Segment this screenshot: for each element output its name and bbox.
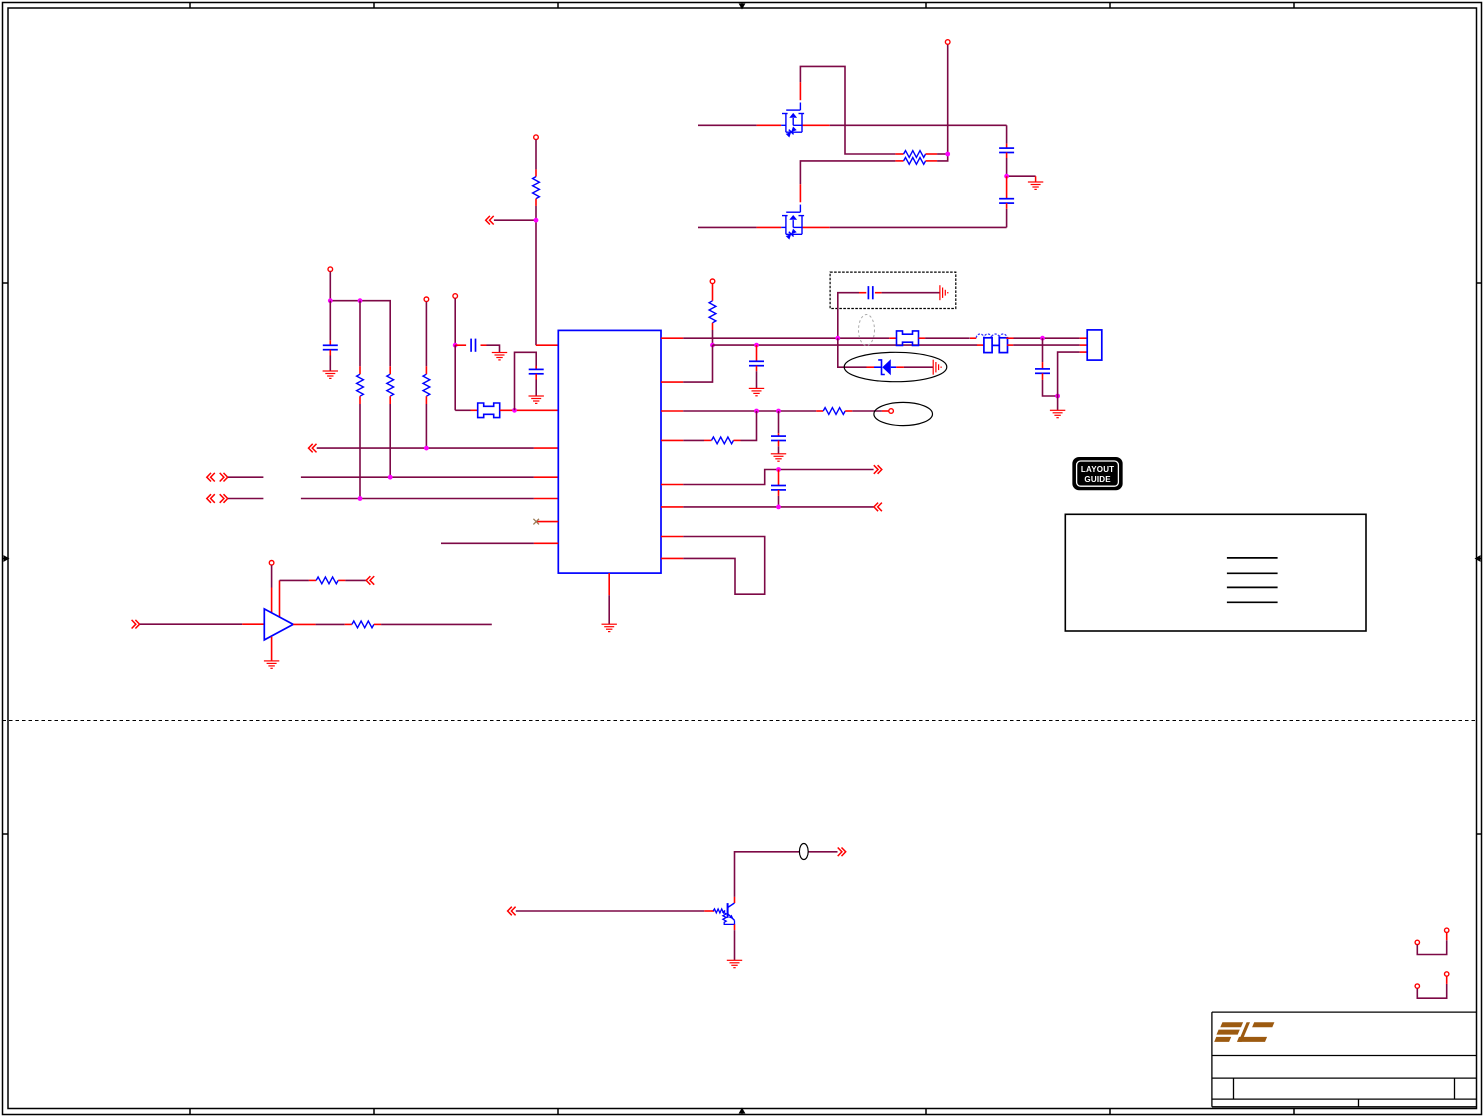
pin R4 bottom: [389, 396, 391, 404]
wire VCC1 bus right: [330, 301, 390, 367]
offpage conn outn: [874, 503, 882, 512]
junction net3: [534, 218, 539, 223]
wire line1 to conn: [1014, 337, 1080, 339]
ground C3: [323, 371, 338, 378]
FIC logo: [1214, 1022, 1274, 1042]
junction net2: [358, 496, 363, 501]
pin C4 left: [455, 344, 466, 346]
pin IC right u1: [661, 536, 683, 538]
resistor R2: [904, 158, 926, 165]
notes box: [1065, 514, 1366, 631]
pin D1 left: [867, 366, 875, 368]
pin J1 1: [1080, 337, 1088, 339]
pin R7 bottom: [712, 323, 714, 330]
junction net0: [424, 446, 429, 451]
pin C3 bottom: [329, 350, 331, 356]
ground conn: [1050, 410, 1065, 417]
pin R2 left: [895, 160, 903, 162]
resistor R7: [709, 301, 716, 323]
pin C7 right: [875, 292, 882, 294]
wire M1 source to C1: [830, 124, 1007, 126]
pin C3 top: [329, 340, 331, 345]
wire C8 top: [1042, 338, 1044, 362]
wire C4 to gnd: [487, 345, 500, 352]
pin D1 right: [896, 366, 904, 368]
wire C5 to gnd: [535, 380, 537, 397]
wire R5 down: [425, 404, 427, 448]
junction line2 R7: [710, 343, 715, 348]
pin R11 right: [374, 623, 381, 625]
wire C1 to junction: [1006, 158, 1008, 176]
wire C7 to chassis: [882, 292, 940, 294]
wire net2 stub: [228, 498, 263, 500]
capacitor C6: [749, 361, 764, 365]
wire VCC4 down: [454, 298, 456, 345]
resistor R11: [352, 621, 374, 628]
wire R3 top: [359, 301, 361, 367]
center arrow bottom: [741, 1111, 743, 1115]
junction VCC4: [453, 343, 458, 348]
choke L1: [976, 334, 1007, 353]
wire C2 bottom: [1006, 209, 1008, 228]
pin IC right outp: [661, 484, 683, 486]
pin M2 drain: [757, 226, 782, 228]
pin IC right line1: [661, 337, 683, 339]
junction VCC1 a: [328, 298, 333, 303]
node VCC3 circle: [534, 135, 539, 140]
pin R7 top: [712, 284, 714, 301]
offpage conn net3: [486, 216, 494, 225]
offpage conn net2 pair: [207, 494, 215, 503]
offpage conn buf in: [132, 620, 140, 629]
wire junction to gnd: [1007, 175, 1036, 177]
pin IC right 2: [661, 381, 683, 383]
wire base: [516, 910, 705, 912]
pin M2 source: [802, 226, 830, 228]
wire IC gnd: [608, 595, 610, 624]
pin C1 top: [1006, 144, 1008, 149]
wire emitter down: [734, 930, 736, 960]
pin IC bottom gnd: [608, 573, 610, 595]
wire buf out: [316, 623, 345, 625]
pin R9 right: [734, 439, 741, 441]
wire M1 drain left: [698, 124, 757, 126]
offpage conn base: [508, 907, 516, 916]
wire bypass branch: [515, 352, 537, 410]
pin IC left net1: [534, 476, 558, 478]
resistor R6: [533, 177, 540, 199]
pin Q3 emitter: [734, 924, 736, 930]
pin M1 drain: [757, 124, 782, 126]
chassis ground C7: [940, 285, 948, 300]
pin buf in: [242, 623, 264, 625]
wire collector up: [735, 852, 838, 897]
wire R10 to offpage: [345, 579, 366, 581]
pin F1 right: [500, 409, 559, 411]
notes line 4: [1227, 601, 1278, 603]
pin buf gnd: [271, 637, 273, 661]
resistor R10: [316, 577, 338, 584]
resistor R4: [387, 374, 394, 396]
offpage conn fb: [366, 576, 374, 585]
pin C2 bottom: [1006, 203, 1008, 209]
wire R4 down to net1: [389, 404, 391, 477]
pin IC left net0: [534, 447, 558, 449]
capacitor C1: [999, 148, 1014, 152]
wire R2 up to node: [937, 154, 948, 161]
wire supply vertical: [947, 44, 949, 154]
RIGHT-FILTER: [661, 272, 1102, 418]
ground stem top: [1035, 176, 1037, 182]
pin node stub: [882, 410, 889, 412]
center arrow right: [1479, 558, 1482, 560]
capacitor C10: [771, 486, 786, 490]
offpage conn net1 pair: [207, 473, 215, 482]
wire R6 top: [535, 140, 537, 170]
pin R3 bottom: [359, 396, 361, 404]
wire buf in: [140, 623, 242, 625]
pin R1 left: [895, 153, 903, 155]
MID-LEFT: [207, 135, 559, 503]
pin R3 top: [359, 366, 361, 374]
pin L1 left: [970, 337, 976, 339]
wire line2: [713, 344, 978, 346]
junction adj b: [776, 409, 781, 414]
pin C5 bottom: [535, 374, 537, 380]
offpage conn net0: [309, 444, 317, 453]
pin R1 right: [926, 153, 938, 155]
wire pin2 up: [683, 345, 712, 382]
wire R5 top: [425, 302, 427, 367]
offpage conn outp: [874, 465, 882, 474]
protection ellipse: [844, 352, 947, 381]
wire M2 drain left: [698, 226, 757, 228]
wire R3 down to net2: [359, 404, 361, 499]
ic U1 body: [558, 330, 661, 573]
pin R2 right: [926, 160, 938, 162]
wire R9 up to adj: [741, 411, 757, 440]
pin F2 right: [919, 337, 926, 339]
junction line1 cap: [1040, 336, 1045, 341]
pin J1 2: [1080, 344, 1088, 346]
resistor R8: [823, 408, 845, 415]
pin C6 bottom: [756, 366, 758, 372]
wire outn: [683, 506, 873, 508]
current probe ellipse: [799, 844, 808, 860]
resistor R5: [423, 374, 430, 396]
wire C3 top: [329, 301, 331, 341]
capacitor C8: [1035, 369, 1050, 373]
pin buf out: [293, 623, 315, 625]
wire U loop: [683, 537, 765, 595]
pin F1 left: [471, 409, 478, 411]
wire R7 down: [712, 330, 714, 345]
pin R4 top: [389, 366, 391, 374]
junction outn: [776, 505, 781, 510]
pin C1 bottom: [1006, 153, 1008, 159]
ground C9: [771, 454, 786, 461]
wire M1 gate jog: [800, 66, 895, 154]
center arrow top: [741, 3, 743, 7]
wire fb up: [683, 439, 704, 441]
node test circle: [889, 409, 894, 414]
wire buf vcc: [271, 565, 273, 587]
no-connect X: [533, 519, 539, 525]
pin IC right adj: [661, 410, 683, 412]
dashed option box: [830, 272, 956, 308]
wire R11 out: [381, 623, 492, 625]
MID-OUT: [661, 402, 933, 594]
pin C9 bottom: [778, 441, 780, 447]
pin IC right outn: [661, 506, 683, 508]
pin R8 right: [845, 410, 852, 412]
pin R10 right: [338, 579, 345, 581]
junction net1: [388, 475, 393, 480]
wire option cap left: [838, 293, 859, 339]
junction F1 out: [512, 408, 517, 413]
pin C10 top: [778, 470, 780, 486]
junction gnd conn: [1055, 394, 1060, 399]
wire C1 top: [1006, 125, 1008, 143]
pin C8 bottom: [1042, 373, 1044, 380]
wire VCC4 down2: [454, 345, 456, 410]
border zone ticks bottom: [190, 1109, 1294, 1115]
ground Q3: [727, 960, 742, 967]
BOTTOM: [508, 844, 1449, 999]
svg-text:LAYOUT: LAYOUT: [1081, 465, 1114, 474]
layout guide badge: [1073, 458, 1122, 490]
chassis ground D1: [933, 360, 941, 375]
ANNOT: [1065, 458, 1366, 631]
ground C5: [529, 396, 544, 403]
pin IC left nc: [536, 521, 558, 523]
svg-text:GUIDE: GUIDE: [1084, 475, 1111, 484]
offpage conn collector: [838, 848, 846, 857]
ground IC: [602, 624, 617, 631]
node VCC5 circle: [710, 279, 715, 284]
wire line2 to conn: [1013, 344, 1079, 346]
border zone ticks top: [190, 3, 1294, 9]
junction outp cap: [776, 467, 781, 472]
wire conn pin3 L: [1058, 352, 1080, 396]
capacitor C3: [323, 345, 338, 349]
center arrow left: [3, 558, 6, 560]
TOP-CIRCUIT: [698, 40, 1043, 240]
pin L1 line2 left: [977, 344, 984, 346]
junction adj a: [754, 409, 759, 414]
border zone ticks right: [1477, 283, 1483, 834]
mosfet Q2: [781, 205, 804, 241]
pin F2 left: [889, 337, 896, 339]
wire R8 to node: [852, 410, 882, 412]
wire C9 top branch: [778, 411, 780, 433]
pin IC left top: [536, 344, 558, 346]
wire zener branch: [838, 338, 867, 367]
pin C4 right: [481, 344, 487, 346]
capacitor C7: [868, 286, 872, 299]
capacitor C9: [771, 436, 786, 440]
pin M1 gate: [799, 82, 801, 100]
border zone ticks left: [3, 283, 9, 834]
zener D1: [874, 360, 896, 375]
jumper JP2: [1415, 972, 1449, 998]
pin R5 top: [425, 366, 427, 374]
grey tolerance ellipse: [859, 315, 875, 346]
pin IC right u2: [661, 557, 683, 559]
wire outp L: [683, 470, 873, 485]
resistor R1: [904, 151, 926, 158]
junction line2 cap: [754, 343, 759, 348]
title block dividers: [1234, 1078, 1455, 1107]
pin IC left sig: [534, 542, 558, 544]
wire C9 to gnd: [778, 446, 780, 454]
pin R11 left: [345, 623, 352, 625]
pin IC left net2: [534, 498, 558, 500]
wire M2 gate jog: [800, 161, 895, 184]
wire net0: [317, 447, 534, 449]
wire gnd down: [1057, 396, 1059, 410]
pin IC right fb: [661, 439, 683, 441]
resistor R9: [712, 437, 734, 444]
pin R5 bottom: [425, 396, 427, 404]
pin R9 left: [704, 439, 712, 441]
pin buf vcc: [271, 588, 273, 614]
pin C9 top: [778, 433, 780, 436]
pin M2 gate: [799, 184, 801, 202]
wire D1 to chassis: [904, 366, 933, 368]
mosfet Q1: [781, 103, 804, 139]
jumper JP1: [1415, 928, 1449, 954]
fuse F1: [478, 403, 500, 418]
wire C6 to gnd: [756, 371, 758, 388]
node VCC4 circle: [453, 294, 458, 299]
pin buf fb: [279, 580, 281, 617]
wire line1 a: [683, 337, 889, 339]
buffer U2 triangle: [264, 609, 293, 640]
wire C8 bottom L: [1043, 380, 1058, 396]
pin Q3 collector: [734, 897, 736, 903]
pin R10 left: [309, 579, 316, 581]
pin R8 left: [816, 410, 823, 412]
resistor R3: [357, 374, 364, 396]
node VCC2 circle: [424, 297, 429, 302]
wire net3: [494, 219, 536, 221]
capacitor C5: [529, 369, 544, 373]
pin L1 line2 right: [1007, 344, 1013, 346]
ground buf: [264, 661, 279, 668]
notes line 3: [1227, 586, 1278, 588]
wire F2 to choke: [925, 337, 970, 339]
wire net1 stub: [228, 476, 263, 478]
wire net2 main: [301, 498, 534, 500]
wire C3 to gnd: [329, 356, 331, 372]
capacitor C2: [999, 199, 1014, 203]
ground C6: [749, 388, 764, 395]
wire M2 source to C2: [830, 226, 1007, 228]
junction gate node: [945, 152, 950, 157]
notes line 1: [1227, 557, 1278, 559]
wire net1 main: [301, 476, 534, 478]
TITLEBLOCK: [1212, 1012, 1477, 1107]
junction C1 C2: [1004, 174, 1009, 179]
wire C10 down: [778, 496, 780, 507]
pin C10 bottom: [778, 490, 780, 496]
wire adj: [683, 410, 816, 412]
ground C4: [492, 353, 507, 360]
section separator dashed line: [3, 720, 1477, 722]
pin J1 3: [1080, 351, 1088, 353]
wire IC left sig: [441, 542, 534, 544]
junction line1 tap: [835, 336, 840, 341]
wire fb to R10: [280, 579, 309, 581]
pin Q3 base: [704, 910, 714, 912]
node supply circle: [945, 40, 950, 45]
IC-AREA: [441, 330, 661, 631]
pin C2 top: [1006, 176, 1008, 199]
pin M1 source: [802, 124, 830, 126]
notes line 2: [1227, 572, 1278, 574]
transistor Q3 digital npn: [713, 903, 734, 924]
pin L1 right: [1006, 337, 1013, 339]
pin C8 top: [1042, 362, 1044, 369]
test ellipse: [874, 402, 933, 425]
title block frame: [1212, 1012, 1477, 1107]
pin C7 left: [859, 292, 866, 294]
wire VCC1 down: [329, 272, 331, 301]
BUFFER: [132, 561, 492, 669]
fuse F2: [897, 331, 919, 346]
node buf vcc circle: [269, 561, 274, 566]
pin R6 top: [535, 169, 537, 176]
pin R6 bottom: [535, 199, 537, 206]
node VCC1 circle: [328, 267, 333, 272]
pin C6 top: [756, 345, 758, 361]
wire R1 to node: [937, 153, 948, 155]
wire R6 down to IC pin: [535, 206, 537, 345]
pin C5 top: [535, 366, 537, 370]
wire to fuse F1: [455, 409, 470, 411]
capacitor C4: [471, 339, 475, 352]
ground top: [1028, 182, 1043, 189]
connector J1: [1087, 330, 1102, 360]
junction VCC1 b: [358, 298, 363, 303]
